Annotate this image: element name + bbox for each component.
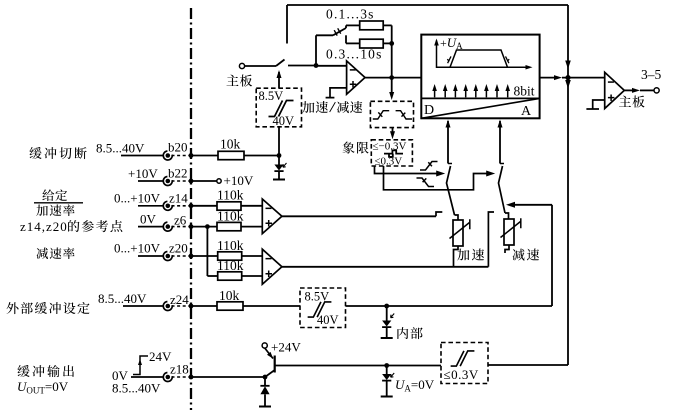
node label 缓冲输出 (buffer output) [17,365,74,377]
svg-text:8.5V: 8.5V [259,89,284,103]
junction H2 output node [384,304,389,309]
switch S4 blade [499,166,506,213]
hysteresis symbol B2 (square loop) [384,150,403,157]
wire to R3 [346,42,360,44]
wire B2 output 2 [384,166,489,190]
pot P2 arrow [501,218,521,237]
resistor R8 10k [217,302,243,310]
junction z18/boundary [189,375,194,380]
DAC ramp diagonal [421,98,539,118]
switch S2 blade [333,28,346,35]
svg-text:+10V: +10V [128,166,158,181]
svg-text:110k: 110k [217,238,244,253]
wire accel switch to DAC [447,121,449,164]
svg-text:≤0.3V: ≤0.3V [375,156,403,168]
Q1 emitter arrow (PNP) [267,352,273,359]
svg-text:z24: z24 [170,292,189,307]
wire Q1 collector to H3 [275,365,387,367]
wire B2 output 1 [375,166,439,174]
waveform axes [437,41,530,68]
diode D3 [259,379,271,407]
block B2 象限 quadrant [371,140,412,166]
wire b20 stub [121,155,164,157]
axis arrow right [526,65,533,70]
wire H1 to node [278,127,280,156]
junction z6 split [205,224,210,229]
wire z6 to R5 [191,226,217,228]
wire R1 to node [244,155,279,157]
waveform tick falling [506,56,510,63]
switch S2 linkage ticks [334,28,341,35]
junction integrator input node [314,63,319,68]
wire B1 to B2 [392,128,394,134]
fraction bar [34,202,83,204]
wire DAC output [540,77,556,79]
wire P1 bottom to U3 output line [454,246,459,267]
wire dash-dot frame boundary [190,8,192,410]
label 加速/减速 [302,101,362,113]
wire node up to timing branch [315,35,317,65]
block B1 加速/减速 detector [370,101,413,127]
wire H1 control to switch S1 [278,72,280,88]
waveform tick rising [447,56,451,63]
DAC block outline [421,35,539,119]
wire to R7 [207,275,217,277]
svg-text:3–5: 3–5 [641,67,662,82]
label 减速 (decelerate) [512,249,539,261]
waveform trapezoid [444,50,514,67]
junction timing output node [389,41,394,46]
wire R2 right [383,24,392,26]
wire S2 to R2 [345,25,347,28]
wire b22 dashed link [172,180,190,182]
terminal b22 [163,177,172,186]
arrowhead feedback down 2 [565,80,571,89]
svg-text:z14: z14 [169,191,188,206]
wire U2 output hook [436,212,442,216]
svg-text:0...+10V: 0...+10V [114,241,161,256]
wire U1 output to DAC [392,77,422,79]
op-amp U2 accel-rate [262,199,282,234]
op-amp U4 comparator [605,72,625,108]
label 加速 (accelerate) [457,249,484,261]
svg-text:110k: 110k [217,188,244,203]
wire R3 stub to branch [345,35,347,43]
junction UA node [384,363,389,368]
junction b20/boundary [189,153,194,158]
wire timing branch [316,34,333,36]
hysteresis symbol H2 [308,302,332,317]
junction z14/boundary [189,203,194,208]
wire U1 output [365,77,392,79]
wire S4 to pot [505,213,509,219]
wire R3 right [383,42,392,44]
resistor R6 110k [218,252,242,260]
arrowhead H1 to S1 [277,70,282,78]
pot P1 arrow [450,219,470,238]
resistor R7 110k [218,272,242,280]
terminal +24V [262,343,267,348]
op-amp U1 integrator [347,61,365,94]
LED D4 UA=0V [381,366,395,397]
wire to comparator U4 [562,77,605,79]
hysteresis block H1 8.5V/40V [256,88,301,127]
svg-text:z6: z6 [174,213,187,228]
wire z24 dashed link [172,305,190,307]
arrowhead into 加速/减速 block [389,92,394,100]
svg-text:≤−0.3V: ≤−0.3V [373,141,407,153]
wire U3 output [282,266,489,268]
svg-text:40V: 40V [273,114,295,128]
svg-text:+24V: +24V [271,340,301,355]
potentiometer P1 加速 [453,220,463,246]
svg-text:8.5...40V: 8.5...40V [96,141,145,156]
junction b22/boundary [189,179,194,184]
wire b20 dashed link [172,155,190,157]
arrowhead into 象限 block [390,131,395,139]
svg-text:110k: 110k [217,258,244,273]
junction feedback/DAC output [565,75,570,80]
wire z18 dashed link [172,376,190,378]
svg-text:z14,z20: z14,z20 [20,219,68,234]
terminal 3-5 [654,88,659,93]
ground U4 + input [586,100,604,109]
svg-text:40V: 40V [317,313,339,327]
arrowhead control accel switch [436,171,445,177]
resistor R3 0.3...10s [360,39,384,48]
svg-text:+10V: +10V [224,173,254,188]
wire b20 to R1 [191,155,218,157]
step symbol arrowhead [138,359,142,365]
svg-text:b20: b20 [168,140,188,155]
transistor Q1 [265,348,275,377]
bit arrow 5 shaft [475,87,477,97]
svg-text:D: D [424,103,434,118]
switch S4 top tick [500,163,504,165]
svg-text:0...+10V: 0...+10V [114,191,161,206]
wire z20 stub [138,255,164,257]
svg-text:b22: b22 [168,166,188,181]
wire S1 to integrator node [288,65,316,67]
hysteresis block H2 8.5V/40V [300,288,346,328]
DAC divider [421,97,539,99]
arrowhead DAC output [554,75,562,80]
wire U1 output to quadrant block [391,78,393,94]
switch S1 blade [276,60,285,67]
resistor R4 110k [217,202,241,210]
terminal z14 [163,201,172,210]
symbol B1 falling ramp [396,111,412,119]
wire z20 to R6 [191,255,218,257]
bit arrow 7 shaft [496,87,498,97]
wire R6 to U3- [242,255,263,257]
bit arrow 6 shaft [485,87,487,97]
node label 外部缓冲设定 (external buffer set) [6,302,89,314]
svg-text:8bit: 8bit [514,84,535,99]
resistor R5 110k [217,222,241,230]
switch S3 top tick [448,163,452,165]
wire feedback drop to S1 upper contact [286,5,288,44]
svg-text:24V: 24V [149,349,172,364]
arrowhead into DAC (accel) [446,120,451,128]
svg-text:≤0.3V: ≤0.3V [444,367,479,382]
label 象限 (quadrant) [342,142,368,154]
wire P2 bottom hook [505,245,509,253]
LED D2 internal [381,306,395,338]
wire U3 output riser hook [488,212,494,267]
svg-text:UA=0V: UA=0V [395,377,435,394]
wire to 3-5 terminal [640,89,654,91]
wire R2 to R3 node [391,25,393,43]
symbol falling step [417,178,435,187]
wire z14 dashed link [172,205,190,207]
resistor R2 0.1...3s [360,21,384,30]
wire R5 to U2+ [241,226,262,228]
terminal b20 [163,151,172,160]
terminal z6 [163,222,172,231]
hysteresis symbol H1 [269,101,294,117]
bit arrow 8 shaft [507,87,509,97]
node label 给定 (setpoint) [42,189,67,201]
svg-text:8.5...40V: 8.5...40V [112,381,161,396]
terminal 主板 input [239,63,244,68]
wire R8 to H2 [243,305,300,307]
arrowhead into DAC (decel) [498,120,503,128]
node label 减速率 (decel rate) [36,247,74,259]
svg-text:10k: 10k [219,288,240,303]
ground U1 + input [326,88,347,98]
symbol B1 rising ramp [373,111,389,119]
wire z18 stub [131,376,164,378]
wire riser to S4 [512,204,552,206]
svg-text:A: A [521,104,532,119]
wire z14 to R4 [191,205,217,207]
terminal z20 [163,252,172,261]
wire node to U1 input [316,65,347,67]
wire feedback riser [567,5,569,365]
wire b22 stub [138,180,164,182]
arrowhead into S4 blade [506,202,515,208]
junction U1 output node [389,75,394,80]
junction z20/boundary [189,254,194,259]
wire timing node to output [391,43,393,77]
wire R7 to U3+ [242,275,263,277]
svg-text:z18: z18 [170,362,189,377]
wire to R2 [346,24,360,26]
svg-text:10k: 10k [220,137,241,152]
node label 缓冲切断 (buffer cutoff) [29,147,86,159]
wire z6 down to R7 [206,227,208,276]
arrowhead U4 output [632,88,640,93]
terminal z24 [163,302,172,311]
wire z6 stub [138,226,164,228]
svg-text:z20: z20 [169,241,188,256]
arrowhead control decel switch [486,171,495,177]
wire z24 to R8 [191,305,217,307]
wire z20 dashed link [172,255,190,257]
arrowhead feedback down 1 [565,61,571,70]
wire decel switch to DAC [499,121,501,164]
symbol rising step [420,162,438,171]
resistor R1 10k [218,151,244,159]
switch S3 blade [447,166,455,215]
wire feedback top [287,4,568,6]
LED D1 [273,156,287,180]
wire U4 output [624,89,634,91]
op-amp U3 decel-rate [262,249,282,284]
bit arrow 2 shaft [444,87,446,97]
label 主板 (mainboard) output [619,96,645,108]
bit arrow 1 shaft [434,87,436,97]
wire b22 to +10V [191,180,217,182]
junction Q1 base node [263,375,268,380]
svg-text:110k: 110k [217,208,244,223]
bit arrow 4 shaft [465,87,467,97]
step symbol 0V->24V [133,356,148,375]
wire z24 stub [123,305,164,307]
label 主板 (mainboard) [227,75,253,87]
wire H3 to feedback riser [488,364,568,366]
wire 主板 to S1 [245,65,276,67]
junction z6/boundary [189,224,194,229]
terminal +10V [217,179,221,183]
potentiometer P2 减速 [504,219,514,245]
hysteresis symbol H3 [451,351,475,366]
node label 加速率 (accel rate) [36,204,74,216]
svg-text:8.5...40V: 8.5...40V [98,291,147,306]
wire H2 node to decel control riser [387,305,552,307]
wire z6 dashed link [172,226,190,228]
bit arrow 3 shaft [454,87,456,97]
wire U2 output [282,215,436,217]
wire H2 to node [346,305,387,307]
wire S3 to pot [455,215,459,220]
wire decel control riser [551,205,553,306]
svg-text:0V: 0V [140,212,157,227]
label 内部 (internal) [397,327,422,339]
wire UA node to H3 [387,365,441,367]
svg-text:0.1...3s: 0.1...3s [326,7,375,22]
junction node b20/H1 [277,153,282,158]
terminal z18 [163,373,172,382]
wire z18 to Q1 base [191,376,265,378]
junction z24/boundary [189,304,194,309]
hysteresis block H3 <=0.3V [441,343,488,384]
wire R4 to U2- [241,205,262,207]
axis arrow up [434,39,439,46]
wire z14 stub [138,205,164,207]
